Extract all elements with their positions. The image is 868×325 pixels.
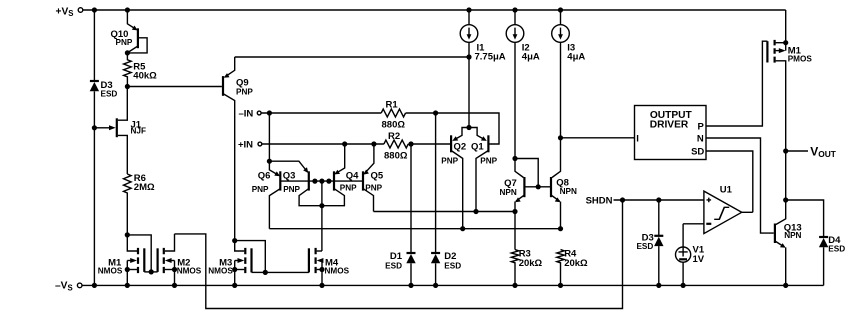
wire SD pin to U1 output: [706, 151, 753, 212]
transistor Q1 (PNP): [469, 128, 498, 212]
transistor Q13 (NPN): [775, 200, 802, 285]
wire M2 drain to SHDN bypass: [175, 200, 623, 309]
wire +VS top rail: [83, 9, 786, 11]
svg-text:–IN: –IN: [239, 108, 254, 119]
node +IN terminal: [238, 139, 262, 150]
svg-text:PNP: PNP: [340, 183, 357, 192]
transistor M3 (NMOS, diode-connected): [208, 241, 265, 286]
node junction dots on +VS rail: [92, 7, 563, 12]
svg-text:NMOS: NMOS: [98, 267, 123, 276]
svg-text:D1: D1: [390, 251, 403, 262]
transistor Q10 (PNP, diode-connected): [111, 10, 148, 53]
svg-text:PNP: PNP: [283, 185, 300, 194]
wire +IN line after R2 to Q2 base: [408, 143, 450, 145]
svg-text:4μA: 4μA: [567, 52, 585, 63]
voltage source V1 1V: [676, 224, 705, 286]
node R5 bottom / Q9 base junction: [125, 84, 130, 89]
wire collector node down to M4 drain: [321, 206, 323, 251]
transistor M2 (NMOS): [151, 234, 202, 286]
svg-text:I: I: [636, 133, 639, 144]
wire N pin to Q13 base: [706, 138, 774, 233]
svg-text:1V: 1V: [693, 254, 705, 265]
transistor Q5 (PNP): [363, 144, 384, 212]
svg-text:20kΩ: 20kΩ: [564, 258, 588, 269]
wire Q5/Q1 collector bus to R3: [374, 211, 516, 213]
svg-text:880Ω: 880Ω: [384, 150, 408, 161]
diode D2 ESD: [431, 251, 461, 286]
svg-text:NMOS: NMOS: [177, 267, 202, 276]
diode D1 ESD: [385, 251, 416, 286]
wire M3/M4 gate feed: [235, 241, 266, 273]
node Q10 collector / R5 top: [125, 50, 130, 55]
svg-text:ESD: ESD: [444, 261, 461, 270]
transistor Q7 (NPN, diode-connected): [500, 159, 551, 250]
node Q7 emitter dot on bus: [512, 209, 517, 214]
svg-text:NPN: NPN: [560, 187, 577, 196]
transistor Q8 (NPN): [551, 138, 577, 229]
wire M1/M2 gate feed: [127, 235, 151, 272]
transistor M4 (NMOS): [265, 248, 349, 286]
svg-text:7.75μA: 7.75μA: [475, 52, 506, 63]
transistor Q9 (PNP): [223, 57, 253, 241]
wire Q6/Q2 collector bus to R4: [269, 228, 560, 230]
svg-text:R2: R2: [388, 131, 400, 142]
node M1 drain / R6 bottom junction: [125, 232, 130, 237]
node Q5 emitter dot: [371, 141, 376, 146]
resistor R1 880: [381, 100, 405, 131]
current source I3 4uA: [552, 10, 586, 138]
node Q2 collector dot on bus: [460, 226, 465, 231]
svg-text:PNP: PNP: [365, 183, 382, 192]
node J1 gate junction: [92, 125, 97, 130]
svg-text:PMOS: PMOS: [788, 55, 813, 64]
node Q13 collector / D4 junction: [783, 197, 788, 202]
node Q7 collector dot (I2): [512, 156, 517, 161]
node Q8 emitter dot on bus: [558, 226, 563, 231]
transistor Q3 (PNP): [269, 161, 322, 206]
wire common base line of Q6 Q3 Q4 Q5: [280, 180, 363, 182]
node SHDN net: [586, 195, 704, 206]
svg-text:PNP: PNP: [480, 157, 497, 166]
wire D1 column: [410, 144, 412, 253]
svg-text:N: N: [697, 133, 704, 144]
op-amp U1 output driver box: [635, 106, 707, 160]
node R1 right dot / D2 branch: [433, 110, 438, 115]
svg-text:D2: D2: [444, 251, 456, 262]
node Q3/Q4 collector node: [319, 203, 324, 208]
svg-text:NMOS: NMOS: [325, 267, 350, 276]
transistor Q2 (PNP): [441, 128, 469, 229]
diode D3 ESD (left): [90, 10, 118, 128]
svg-text:PNP: PNP: [236, 87, 253, 96]
node -IN branch dot: [267, 110, 272, 115]
node R2 right dot / D1 branch: [408, 141, 413, 146]
svg-text:+IN: +IN: [238, 139, 253, 150]
node Q8 collector dot (I3 / driver input): [558, 135, 563, 140]
diode D4 ESD: [786, 200, 846, 285]
svg-text:PNP: PNP: [441, 157, 458, 166]
resistor R6 2M: [124, 173, 155, 235]
wire P pin to M1 PMOS gate: [706, 41, 767, 126]
svg-text:Q4: Q4: [346, 170, 359, 181]
svg-text:R1: R1: [386, 100, 399, 111]
node M3 drain / Q9 collector junction: [232, 238, 237, 243]
wire -IN line: [261, 112, 381, 114]
wire D2 column: [435, 113, 437, 253]
node junction dots on -VS rail: [92, 283, 789, 288]
svg-text:U1: U1: [720, 185, 733, 196]
resistor R4 20k: [557, 249, 588, 286]
wire -VS bottom rail: [82, 284, 824, 286]
svg-text:DRIVER: DRIVER: [650, 119, 689, 130]
svg-text:ESD: ESD: [636, 242, 653, 251]
svg-text:Q3: Q3: [283, 170, 296, 181]
svg-text:2MΩ: 2MΩ: [134, 182, 155, 193]
svg-text:NMOS: NMOS: [208, 267, 233, 276]
svg-text:PNP: PNP: [252, 185, 269, 194]
node M3/M4 gate node: [263, 270, 268, 275]
resistor R3 20k: [511, 249, 542, 286]
svg-text:PNP: PNP: [116, 38, 133, 47]
node -VS terminal: [55, 281, 82, 293]
wire Q8 collector to driver I pin: [561, 137, 635, 139]
svg-text:Q6: Q6: [258, 170, 271, 181]
svg-text:ESD: ESD: [828, 244, 845, 253]
transistor Q6 (PNP): [252, 161, 281, 229]
wire output column to Q13: [785, 151, 787, 200]
node Q1 collector dot on bus: [473, 209, 478, 214]
op-amp U1 (shutdown comparator): [683, 185, 753, 234]
svg-text:880Ω: 880Ω: [382, 119, 406, 130]
transistor M1 (NMOS, diode-connected): [98, 235, 151, 286]
node Q4 emitter dot: [342, 141, 347, 146]
node -IN terminal: [239, 108, 262, 119]
svg-text:NPN: NPN: [500, 188, 517, 197]
svg-text:ESD: ESD: [385, 261, 402, 270]
node +VS terminal: [56, 6, 83, 18]
node Q1/Q2 common emitter node: [466, 125, 471, 130]
node Q7/Q8 base dot: [536, 184, 541, 189]
svg-text:P: P: [697, 121, 704, 132]
transistor J1 (NJF): [94, 87, 146, 175]
diode D3 ESD (shutdown): [636, 200, 663, 285]
svg-text:40kΩ: 40kΩ: [133, 71, 157, 82]
resistor R2 880: [384, 131, 408, 162]
wire D3 column to -VS rail: [93, 128, 95, 286]
svg-text:Q5: Q5: [371, 170, 384, 181]
node VOUT junction: [783, 144, 837, 159]
transistor M1 (PMOS, output): [767, 10, 812, 151]
svg-text:NJF: NJF: [131, 127, 146, 136]
wire base tail down to collector node: [321, 181, 323, 206]
svg-text:Q2: Q2: [454, 142, 467, 153]
resistor R5 40k: [124, 53, 158, 87]
current source I2 4uA: [506, 10, 540, 159]
transistor Q4 (PNP): [322, 144, 359, 206]
svg-text:ESD: ESD: [101, 90, 118, 99]
wire -IN line after R1 to Q1 base: [406, 113, 499, 144]
svg-text:4μA: 4μA: [522, 52, 540, 63]
wire Q9 emitter to I1 line: [235, 56, 469, 58]
node base line dots: [312, 179, 331, 184]
node I1 / Q9 emitter dot: [466, 54, 471, 59]
wire Q9 base line: [127, 86, 221, 88]
current source I1 7.75uA: [460, 10, 506, 128]
node M1/M2 gate node: [149, 269, 154, 274]
node quad left emitter node (-IN): [267, 159, 272, 164]
wire +IN line: [262, 143, 384, 145]
svg-text:20kΩ: 20kΩ: [519, 258, 543, 269]
svg-text:SHDN: SHDN: [586, 195, 613, 206]
svg-text:Q1: Q1: [471, 142, 484, 153]
wire -IN down to quad emitters: [268, 113, 270, 161]
svg-text:SD: SD: [691, 146, 704, 157]
svg-text:NPN: NPN: [784, 231, 801, 240]
